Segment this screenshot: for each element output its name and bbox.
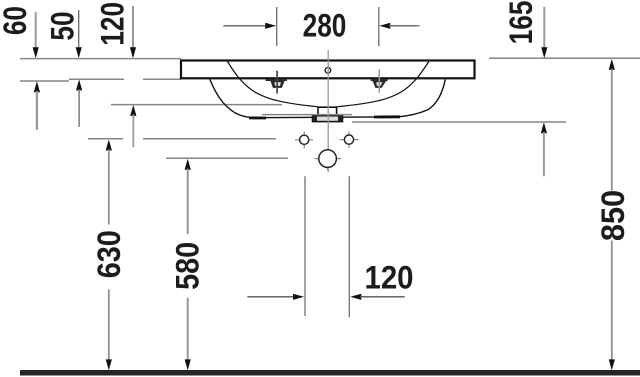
svg-text:120: 120: [364, 260, 413, 296]
svg-text:580: 580: [170, 242, 206, 290]
svg-text:165: 165: [505, 1, 540, 45]
svg-text:850: 850: [596, 190, 632, 241]
svg-text:630: 630: [92, 230, 128, 278]
svg-text:120: 120: [96, 2, 131, 46]
svg-text:50: 50: [46, 11, 81, 40]
svg-text:60: 60: [0, 6, 34, 35]
svg-text:280: 280: [303, 9, 347, 44]
